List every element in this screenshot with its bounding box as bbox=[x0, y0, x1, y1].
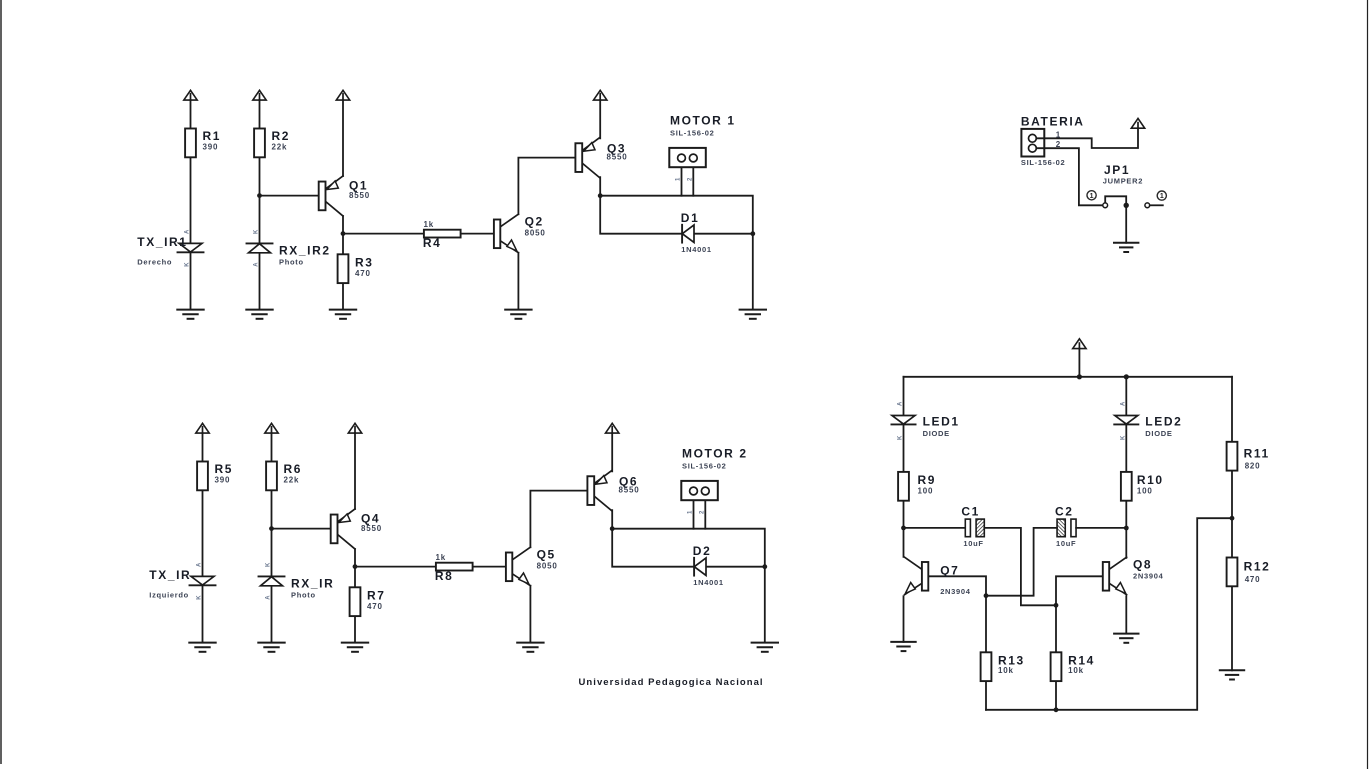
svg-text:R3: R3 bbox=[355, 256, 374, 270]
svg-text:470: 470 bbox=[355, 269, 371, 278]
svg-text:Photo: Photo bbox=[279, 257, 304, 266]
svg-text:A: A bbox=[898, 401, 904, 406]
svg-text:10k: 10k bbox=[1068, 666, 1084, 675]
svg-text:JP1: JP1 bbox=[1104, 163, 1130, 177]
svg-text:K: K bbox=[898, 435, 904, 440]
svg-text:1N4001: 1N4001 bbox=[693, 578, 723, 587]
svg-text:K: K bbox=[1120, 435, 1126, 440]
svg-text:Izquierdo: Izquierdo bbox=[149, 590, 189, 599]
svg-text:R10: R10 bbox=[1137, 473, 1164, 487]
svg-text:Universidad Pedagogica Naciona: Universidad Pedagogica Nacional bbox=[579, 677, 764, 688]
svg-text:R8: R8 bbox=[435, 569, 454, 583]
svg-text:TX_IR: TX_IR bbox=[149, 568, 191, 582]
svg-text:K: K bbox=[266, 562, 272, 567]
svg-text:8550: 8550 bbox=[361, 524, 382, 533]
svg-text:RX_IR2: RX_IR2 bbox=[279, 244, 331, 258]
svg-text:R6: R6 bbox=[284, 462, 303, 476]
svg-text:R12: R12 bbox=[1244, 560, 1271, 574]
svg-text:R5: R5 bbox=[215, 462, 234, 476]
svg-text:1k: 1k bbox=[436, 553, 447, 562]
svg-text:22k: 22k bbox=[284, 476, 300, 485]
svg-text:R11: R11 bbox=[1244, 447, 1270, 461]
svg-text:470: 470 bbox=[1245, 575, 1261, 584]
svg-text:1: 1 bbox=[1056, 130, 1061, 139]
svg-text:1: 1 bbox=[1160, 193, 1164, 200]
svg-text:TX_IR1: TX_IR1 bbox=[137, 235, 187, 249]
svg-text:22k: 22k bbox=[272, 143, 288, 152]
svg-text:C2: C2 bbox=[1055, 505, 1074, 519]
svg-text:BATERIA: BATERIA bbox=[1021, 115, 1085, 129]
svg-text:8050: 8050 bbox=[537, 562, 558, 571]
svg-text:A: A bbox=[185, 229, 191, 234]
svg-text:A: A bbox=[254, 262, 260, 267]
svg-text:1N4001: 1N4001 bbox=[681, 245, 711, 254]
svg-text:8050: 8050 bbox=[525, 229, 546, 238]
svg-text:DIODE: DIODE bbox=[1145, 429, 1172, 438]
svg-text:1k: 1k bbox=[424, 220, 435, 229]
svg-text:Q2: Q2 bbox=[525, 215, 544, 229]
svg-text:10k: 10k bbox=[998, 666, 1014, 675]
svg-text:390: 390 bbox=[215, 476, 231, 485]
svg-text:D1: D1 bbox=[681, 211, 700, 225]
svg-text:Q5: Q5 bbox=[537, 548, 556, 562]
svg-text:2: 2 bbox=[1056, 140, 1061, 149]
svg-text:R7: R7 bbox=[367, 589, 386, 603]
svg-text:R1: R1 bbox=[203, 129, 222, 143]
svg-text:LED1: LED1 bbox=[923, 414, 960, 428]
svg-text:Q7: Q7 bbox=[940, 563, 959, 577]
svg-text:820: 820 bbox=[1245, 462, 1261, 471]
svg-text:R9: R9 bbox=[918, 473, 937, 487]
svg-text:R2: R2 bbox=[272, 129, 291, 143]
svg-text:100: 100 bbox=[1137, 486, 1153, 495]
svg-text:10uF: 10uF bbox=[1056, 539, 1076, 548]
svg-text:DIODE: DIODE bbox=[923, 429, 950, 438]
svg-text:SIL-156-02: SIL-156-02 bbox=[1021, 158, 1066, 167]
svg-text:2N3904: 2N3904 bbox=[1133, 571, 1164, 580]
svg-text:SIL-156-02: SIL-156-02 bbox=[682, 462, 727, 471]
svg-text:2N3904: 2N3904 bbox=[940, 587, 971, 596]
svg-text:8550: 8550 bbox=[619, 486, 640, 495]
svg-text:A: A bbox=[266, 595, 272, 600]
svg-text:C1: C1 bbox=[961, 505, 980, 519]
svg-text:100: 100 bbox=[918, 486, 934, 495]
svg-text:8550: 8550 bbox=[349, 191, 370, 200]
svg-text:Q8: Q8 bbox=[1133, 558, 1152, 572]
svg-text:MOTOR 1: MOTOR 1 bbox=[670, 114, 736, 128]
svg-text:K: K bbox=[254, 229, 260, 234]
svg-text:Photo: Photo bbox=[291, 590, 316, 599]
svg-text:1: 1 bbox=[1090, 193, 1094, 200]
svg-text:RX_IR: RX_IR bbox=[291, 577, 334, 591]
svg-text:LED2: LED2 bbox=[1145, 414, 1182, 428]
svg-text:470: 470 bbox=[367, 602, 383, 611]
svg-text:K: K bbox=[185, 262, 191, 267]
svg-text:SIL-156-02: SIL-156-02 bbox=[670, 129, 715, 138]
svg-text:A: A bbox=[1120, 401, 1126, 406]
svg-text:A: A bbox=[197, 562, 203, 567]
svg-text:10uF: 10uF bbox=[963, 539, 983, 548]
svg-text:R4: R4 bbox=[423, 236, 442, 250]
svg-text:Derecho: Derecho bbox=[137, 257, 172, 266]
svg-text:MOTOR 2: MOTOR 2 bbox=[682, 447, 748, 461]
svg-text:390: 390 bbox=[203, 143, 219, 152]
svg-text:D2: D2 bbox=[693, 544, 712, 558]
svg-text:JUMPER2: JUMPER2 bbox=[1103, 177, 1143, 186]
svg-text:K: K bbox=[197, 595, 203, 600]
svg-text:8550: 8550 bbox=[607, 153, 628, 162]
